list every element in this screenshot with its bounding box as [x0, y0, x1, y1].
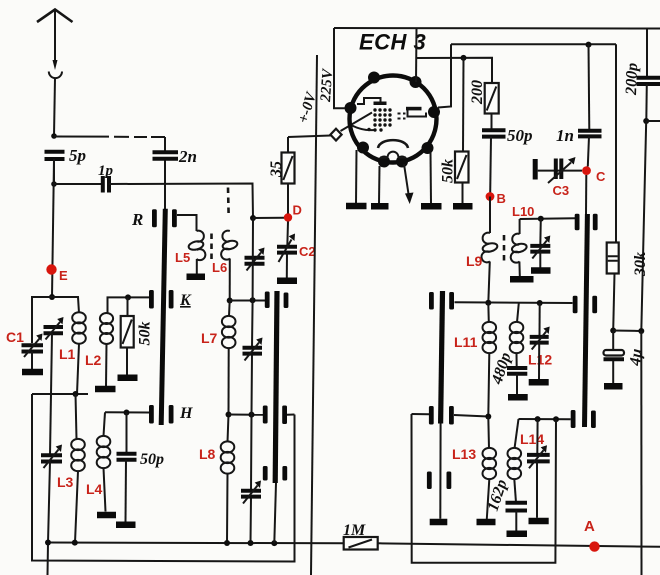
node (box edge tap) — [553, 416, 559, 422]
svg-text:L4: L4 — [86, 481, 103, 497]
contact (middle, mid) — [429, 406, 454, 425]
svg-text:2n: 2n — [178, 147, 197, 166]
node (D junction) — [250, 215, 256, 221]
wire wiper tail to ground — [439, 424, 441, 519]
node (L1/L3 junction) — [73, 391, 79, 397]
node (1n rail tap) — [586, 42, 592, 48]
contact (middle, top) — [429, 292, 454, 310]
resistor 30k — [607, 44, 619, 330]
switch wiper bar (left gang) — [159, 209, 168, 425]
ground (480p) — [508, 394, 528, 401]
tube internals — [352, 98, 426, 158]
wire grid cap — [288, 136, 331, 138]
capacitor 2n — [153, 137, 197, 209]
ground (4u) — [604, 383, 623, 390]
trimmer C3 — [533, 157, 582, 183]
contact (right, middle) — [573, 296, 597, 314]
top rail — [334, 27, 660, 30]
wire L10 top row — [520, 217, 575, 220]
225V feed — [334, 28, 345, 108]
svg-text:L2: L2 — [85, 352, 102, 368]
svg-text:L9: L9 — [466, 253, 483, 269]
ground (L4) — [97, 512, 116, 519]
svg-text:50p: 50p — [140, 451, 164, 468]
second rail (B+) — [451, 43, 616, 45]
contact (gang2, bottom) — [263, 466, 287, 481]
coil L6 — [221, 231, 238, 301]
resistor 50k (AVC) — [121, 297, 134, 374]
pin (right, anode) — [428, 106, 440, 118]
coil L7 — [222, 301, 236, 415]
svg-text:4μ: 4μ — [627, 348, 646, 367]
wire y302 row — [455, 301, 573, 304]
node (bus/L8) — [224, 540, 230, 546]
tube arrow (cathode) — [404, 164, 414, 204]
switch wiper bar (middle gang) — [438, 291, 445, 424]
wire main line down through y394 — [50, 333, 52, 455]
wire main left line (E branch) — [52, 159, 54, 297]
coil L2 — [100, 297, 149, 387]
wire 5p to node2 — [53, 159, 55, 184]
node (200p bottom) — [643, 118, 649, 124]
core dashes L9/L10 — [503, 235, 506, 261]
trimmer C1 — [22, 334, 44, 370]
resistor 200 — [485, 83, 499, 129]
ground (C2) — [277, 278, 297, 285]
pin (bottom 2) — [396, 156, 408, 168]
svg-text:C3: C3 — [553, 183, 570, 198]
ground bus — [48, 543, 660, 547]
node (L14 trimmer tap) — [535, 416, 541, 422]
svg-text:5p: 5p — [69, 146, 86, 165]
ground (L5) — [187, 274, 206, 281]
wire antenna to node — [54, 78, 55, 136]
node (L10 trimmer tap) — [538, 216, 544, 222]
ground (50k) — [118, 375, 138, 382]
pin (top-right) — [410, 76, 422, 88]
contact (gang2, mid) — [263, 406, 287, 425]
contact R — [131, 209, 177, 229]
osc column wire — [251, 218, 254, 543]
svg-text:200: 200 — [469, 80, 486, 105]
ground (L10 trimmer) — [531, 267, 551, 274]
svg-text:1M: 1M — [343, 522, 366, 539]
coil L9 — [481, 197, 498, 304]
wire gang2 mid to box corner — [287, 414, 295, 416]
node A — [589, 541, 599, 551]
pin (bottom 1) — [378, 156, 390, 168]
coil L5 — [177, 215, 205, 274]
svg-text:L3: L3 — [57, 474, 74, 490]
resistor 50k (cathode) — [455, 58, 469, 204]
trimmer (L14) — [527, 419, 550, 518]
ground (C1) — [22, 369, 43, 376]
wire y300 row — [230, 300, 265, 302]
capacitor 1n — [556, 45, 602, 167]
svg-text:50p: 50p — [507, 126, 533, 145]
core dashes L5/L6 — [210, 234, 213, 260]
node E — [46, 264, 56, 274]
wire 1p to corner D-column — [109, 184, 253, 219]
capacitor 200p — [623, 29, 660, 122]
osc column: trimmer (lower) — [241, 481, 261, 504]
svg-text:D: D — [293, 203, 302, 218]
wire node to 2n (partly faded) — [54, 136, 165, 139]
wire y394 row — [32, 393, 88, 395]
ground (L10) — [510, 276, 534, 283]
node (L9/L11 junction) — [485, 300, 491, 306]
antenna — [37, 10, 73, 79]
svg-text:L10: L10 — [512, 204, 534, 219]
svg-text:H: H — [179, 405, 193, 422]
ground (tube g) — [371, 166, 389, 206]
node (bus/main line) — [45, 540, 51, 546]
node (bus/L3) — [72, 540, 78, 546]
svg-text:L8: L8 — [199, 446, 216, 462]
node (bus/wiper2) — [271, 540, 277, 546]
wire node2 to 1p — [54, 183, 101, 185]
wire 4u row — [613, 330, 641, 333]
trimmer C2 — [277, 222, 297, 279]
svg-text:L12: L12 — [528, 352, 552, 368]
node (L6/L7) — [227, 298, 233, 304]
coil L13 — [483, 417, 497, 520]
switch wiper bar (gang 2) — [273, 291, 280, 483]
wire pin top-right to rail — [415, 28, 418, 82]
node D — [284, 213, 292, 221]
ground (middle wiper) — [430, 519, 448, 526]
pin (bottom-left) — [357, 142, 369, 154]
svg-text:200p: 200p — [623, 63, 641, 97]
svg-text:1n: 1n — [556, 126, 574, 145]
svg-text:50k: 50k — [440, 159, 457, 183]
resistor 35 (grid leak) — [282, 137, 295, 214]
wire rail to anode pin — [438, 44, 451, 107]
wire C to switch — [585, 175, 587, 214]
node (L1/C1 junction) — [49, 294, 55, 300]
node (antenna/5p junction) — [51, 133, 57, 139]
node (right line) — [638, 328, 644, 334]
svg-text:L6: L6 — [212, 260, 227, 275]
node (L7/L8 junction) — [226, 412, 232, 418]
contact H — [149, 405, 193, 424]
switch wiper bar (right gang) — [582, 214, 590, 427]
svg-text:A: A — [584, 518, 595, 535]
svg-text:L5: L5 — [175, 250, 190, 265]
svg-text:L13: L13 — [452, 446, 476, 462]
svg-text:L11: L11 — [454, 334, 478, 350]
capacitor 4u (electrolytic) — [604, 331, 646, 384]
capacitor 50p (anode) — [482, 126, 533, 193]
contact (middle, bottom) — [427, 472, 451, 490]
resistor 1M — [344, 537, 378, 550]
node (L2/50k/K junction) — [125, 294, 131, 300]
trimmer (lower aerial series, in main line) — [41, 445, 62, 469]
capacitor 162p — [485, 478, 527, 531]
wire right line to bottom — [640, 331, 642, 575]
ground (50k cathode) — [453, 203, 473, 210]
node (bus/osc column) — [248, 540, 254, 546]
contact (right, top) — [575, 214, 598, 231]
gang link dashes — [227, 188, 230, 215]
svg-text:C1: C1 — [6, 329, 24, 345]
svg-text:225V: 225V — [318, 67, 336, 104]
node (L11/L13 junction) — [485, 414, 491, 420]
coil L3 — [71, 394, 85, 543]
node (4u junction) — [610, 328, 616, 334]
capacitor 5p — [45, 146, 87, 165]
ground (162p) — [507, 531, 528, 538]
wire right column down — [641, 121, 646, 331]
svg-text:L1: L1 — [59, 346, 76, 362]
node (osc column y414) — [249, 412, 255, 418]
wire gang2 bar to bus — [274, 483, 276, 543]
tube ECH3 — [345, 72, 441, 168]
svg-text:E: E — [59, 268, 68, 283]
wire screen row y58 — [417, 58, 493, 83]
pin (bottom-right) — [422, 142, 434, 154]
trimmer (L12) — [530, 303, 550, 379]
svg-text:L14: L14 — [520, 431, 544, 447]
capacitor 480p — [488, 351, 527, 394]
svg-text:1p: 1p — [98, 163, 114, 179]
contact K — [149, 290, 192, 309]
wire y415 row — [412, 414, 489, 417]
coil L12 — [510, 303, 524, 368]
node B — [486, 192, 495, 201]
trimmer (L10) — [530, 219, 550, 268]
svg-text:R: R — [131, 210, 143, 229]
node (50k tap) — [461, 55, 467, 61]
trimmer (aerial series, in main line) — [44, 317, 64, 340]
coil L1 — [52, 297, 86, 394]
grid cap connector (diamond) — [330, 129, 341, 141]
switch section box (left) — [32, 394, 295, 562]
wire L14 top row — [519, 418, 571, 420]
osc column: trimmer (upper) — [245, 248, 265, 271]
ground (tube k1) — [346, 150, 367, 206]
svg-text:30k: 30k — [632, 252, 649, 277]
wire main line to bus and bottom edge — [48, 462, 51, 575]
contact (gang2, top) — [265, 292, 289, 309]
0V line — [311, 55, 317, 575]
node (L12 trimmer tap) — [537, 300, 543, 306]
svg-text:35: 35 — [268, 161, 285, 178]
coil L14 — [508, 419, 522, 503]
node (1p junction) — [51, 181, 57, 187]
wire node to C1 branch — [32, 297, 52, 343]
svg-text:50k: 50k — [137, 322, 154, 346]
coil L10 — [511, 219, 528, 276]
wire stub right edge — [646, 120, 660, 122]
ground (L2) — [95, 386, 116, 393]
switch section box (right) — [412, 414, 557, 563]
svg-text:C2: C2 — [299, 244, 316, 259]
pin (left, 225V) — [345, 102, 357, 114]
coil L8 — [221, 415, 235, 544]
osc column: trimmer (middle) — [243, 338, 263, 361]
ground (50p left) — [116, 522, 136, 529]
pin (top-left) — [368, 72, 380, 84]
contact (right, bottom) — [571, 410, 596, 428]
wire diamond to tube grid — [341, 113, 373, 132]
ground (L13) — [477, 519, 496, 526]
ground (L14 trimmer) — [529, 518, 549, 525]
node (50p junction) — [124, 410, 130, 416]
ground (tube k2) — [421, 153, 442, 207]
wire D row — [253, 217, 284, 219]
svg-text:B: B — [497, 191, 506, 206]
capacitor 50p (left) — [117, 413, 165, 522]
coil L11 — [483, 303, 497, 417]
capacitor 1p — [98, 163, 114, 193]
svg-text:C: C — [596, 169, 606, 184]
node C — [582, 166, 591, 175]
wire y414 row — [229, 414, 264, 416]
ground (L12 trimmer) — [529, 379, 549, 386]
wire L4 to H contact — [105, 411, 149, 413]
node (osc column y300) — [250, 297, 256, 303]
svg-text:L7: L7 — [201, 330, 218, 346]
coil L4 — [97, 412, 111, 511]
svg-text:K: K — [179, 292, 192, 309]
